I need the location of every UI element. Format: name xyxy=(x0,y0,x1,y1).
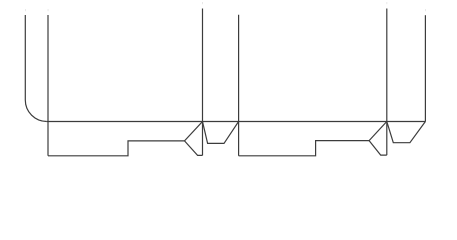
tuck triangle T2 upper diagonal xyxy=(369,122,387,141)
tuck triangle T1 lower diagonal and bottom segment xyxy=(185,141,203,156)
tuck triangle T2 lower diagonal and bottom segment xyxy=(369,141,387,156)
tuck notch trapezoid TR1 xyxy=(203,122,239,144)
tuck triangle T1 upper diagonal xyxy=(185,122,203,141)
faint clipped tip above V3 xyxy=(201,2,204,4)
panel edge line V6 xyxy=(424,15,426,121)
panel cut line V5 xyxy=(386,9,388,156)
tuck notch trapezoid TR2 xyxy=(387,122,426,143)
faint clipped tip above V6 xyxy=(424,9,427,11)
panel cut line V3 xyxy=(202,9,204,156)
panel edge line V4 xyxy=(238,15,240,156)
bottom flap outline B3 with step up to B4 xyxy=(239,141,370,156)
faint clipped tip above V5 xyxy=(385,2,388,4)
panel edge line V2 xyxy=(47,15,49,156)
panel crease line V1 with rounded corner into base line xyxy=(25,15,47,122)
faint clipped tip above V1 xyxy=(24,9,27,11)
faint clipped tip above V2 xyxy=(47,9,50,11)
bottom flap outline B1 with step up to B2 xyxy=(48,141,185,156)
base fold line H1 xyxy=(47,121,426,123)
